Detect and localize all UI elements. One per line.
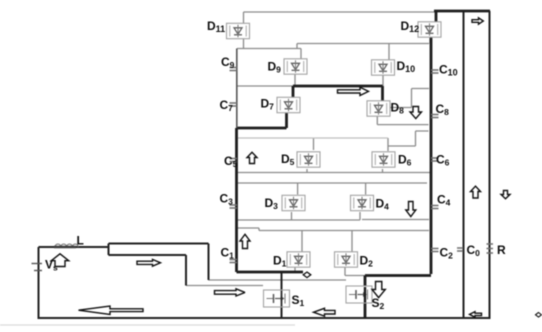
- wire D6 cathode step: [388, 131, 429, 146]
- arrow left bottom-right: [470, 312, 482, 318]
- wire C0 rail: [463, 11, 465, 318]
- wire D5 bottom stub: [306, 169, 308, 173]
- svg-text:C8: C8: [436, 102, 450, 117]
- diode D7: [277, 97, 300, 112]
- wire R rail: [489, 11, 491, 319]
- wire row D3 top: [237, 182, 427, 184]
- diode D4: [351, 195, 374, 210]
- capacitor C9: [230, 68, 238, 71]
- svg-text:D12: D12: [401, 19, 420, 34]
- svg-text:D7: D7: [261, 97, 275, 112]
- svg-text:C9: C9: [221, 55, 235, 70]
- arrow left bottom-mid: [314, 308, 336, 316]
- wire D12 bottom stub: [429, 38, 431, 44]
- wire node to S2: [209, 279, 347, 281]
- diode D1: [287, 252, 310, 267]
- node diamond junction: [303, 272, 311, 278]
- wire D3 bottom stub: [291, 212, 293, 220]
- wire C1 top jog: [237, 228, 259, 231]
- capacitor C0: [457, 248, 463, 251]
- capacitor C6: [431, 158, 439, 161]
- left column thin upper part: [236, 49, 238, 129]
- svg-text:C2: C2: [440, 246, 454, 261]
- arrow left big bottom: [79, 306, 144, 314]
- diode D6: [372, 152, 395, 167]
- faint scan smear bottom: [0, 324, 295, 326]
- arrow down C8: [410, 107, 422, 119]
- wire D6 bottom stub: [382, 169, 384, 173]
- wire row D5 bottom: [237, 172, 430, 174]
- arrow right top-right: [472, 18, 483, 24]
- arrow down C4: [406, 202, 416, 217]
- svg-text:C7: C7: [220, 98, 234, 113]
- arrow up C1: [240, 234, 250, 248]
- wire right column bold: [430, 36, 433, 274]
- wire D9 top stub: [300, 49, 302, 60]
- arrow up C5: [247, 152, 257, 163]
- wire left column thin: [236, 49, 238, 129]
- wire D8 cathode step to column: [390, 89, 429, 108]
- wire D1 bottom stub: [294, 267, 296, 272]
- wire D1 top stub: [301, 231, 303, 253]
- capacitor C7: [230, 103, 238, 106]
- capacitor C3: [230, 205, 238, 208]
- wire node to S1 gate: [186, 285, 263, 287]
- wire row y86 left of D7: [237, 85, 294, 87]
- arrow right above S1: [215, 289, 245, 296]
- diode D3: [282, 195, 305, 210]
- wire D2 bottom stub: [345, 267, 365, 276]
- wire D8 bottom exit: [377, 116, 428, 125]
- arrow up Vs: [51, 254, 68, 267]
- wire D11 top stub: [243, 12, 245, 23]
- wire row D3 bottom: [237, 219, 360, 221]
- wire left column bold: [235, 128, 238, 272]
- resistor R marks: [487, 244, 494, 253]
- svg-text:D8: D8: [391, 101, 405, 116]
- capacitor C10: [431, 70, 439, 73]
- svg-text:C4: C4: [437, 193, 451, 208]
- svg-text:C10: C10: [439, 63, 458, 78]
- svg-text:L: L: [77, 234, 84, 248]
- wire bold row y128: [237, 127, 287, 130]
- wire D10 bottom stub: [382, 75, 384, 86]
- diode D9: [284, 59, 307, 74]
- wire bold switch node: [237, 271, 304, 274]
- svg-text:D5: D5: [281, 152, 295, 167]
- wire D5 top stub: [313, 138, 315, 150]
- switch S2: [346, 286, 372, 303]
- switch S1: [264, 290, 290, 307]
- svg-text:C1: C1: [221, 246, 235, 261]
- wire D6 top stub: [387, 138, 389, 151]
- svg-text:D9: D9: [268, 60, 282, 75]
- wire D12 top stub: [435, 10, 438, 22]
- arrow down S2: [372, 282, 385, 298]
- battery plates on source: [32, 264, 43, 271]
- svg-text:R: R: [497, 243, 506, 257]
- svg-text:D6: D6: [398, 153, 412, 168]
- svg-text:C6: C6: [436, 153, 450, 168]
- node diamond bottom right: [536, 313, 542, 318]
- svg-text:D10: D10: [397, 59, 416, 74]
- wire D5 row faint connector: [238, 137, 388, 139]
- wire D2 top stub: [351, 231, 353, 253]
- wire row D1 top: [259, 230, 429, 232]
- capacitor C5: [230, 159, 238, 162]
- inductor L coil: [54, 244, 78, 247]
- capacitor C4: [431, 206, 439, 209]
- capacitor C1: [230, 260, 238, 263]
- capacitor C2: [431, 249, 439, 252]
- wire S2 through box: [364, 287, 366, 303]
- wire S2 vertical bold: [364, 276, 367, 319]
- svg-text:D1: D1: [273, 254, 287, 269]
- svg-text:S2: S2: [372, 296, 385, 311]
- wire D7 top stub bold: [292, 86, 295, 97]
- wire bold C2 bottom: [365, 274, 431, 277]
- wire S1 through box: [281, 291, 283, 307]
- svg-text:C3: C3: [220, 192, 234, 207]
- wire D11 bottom stub: [243, 39, 245, 49]
- svg-text:D3: D3: [265, 196, 279, 211]
- wire top horizontal D11 to D12: [244, 11, 435, 13]
- wire D7 bottom bold: [285, 112, 288, 128]
- svg-text:S1: S1: [292, 293, 305, 308]
- wire D4 top stub: [365, 183, 367, 195]
- wire inductor node upper step: [109, 244, 209, 281]
- wire D10 top stub: [388, 44, 390, 61]
- svg-text:D11: D11: [207, 19, 225, 34]
- diode D11: [227, 23, 250, 38]
- wire top right bold: [434, 10, 490, 13]
- wire source top with inductor: [39, 246, 109, 248]
- wire inductor node lower step: [109, 244, 187, 286]
- diode D2: [335, 252, 358, 267]
- arrow down R: [501, 191, 510, 199]
- arrow up C0: [471, 186, 481, 198]
- wire bottom rail: [38, 317, 491, 319]
- wire D3 top stub: [297, 183, 299, 195]
- diode D12: [418, 22, 441, 37]
- wire row D3 bottom right: [362, 219, 429, 221]
- wire D9 bottom stub: [294, 75, 296, 87]
- wire S1 vertical: [281, 272, 283, 318]
- svg-text:C0: C0: [467, 243, 481, 258]
- wire D4 bottom stub: [359, 212, 361, 220]
- wire bold row y86: [293, 85, 383, 88]
- wire source left vertical: [38, 247, 40, 318]
- svg-text:D4: D4: [376, 197, 390, 212]
- diode D10: [372, 60, 395, 75]
- diode D8: [367, 101, 390, 116]
- wire D8 top stub bold: [381, 86, 384, 101]
- arrow right under L: [137, 259, 161, 266]
- svg-text:D2: D2: [360, 254, 374, 269]
- diode D5: [297, 152, 320, 167]
- arrow right D7 row: [338, 87, 369, 95]
- capacitor C8: [431, 115, 439, 118]
- wire row D10 top: [297, 44, 429, 49]
- wire row D9 top left: [237, 48, 301, 50]
